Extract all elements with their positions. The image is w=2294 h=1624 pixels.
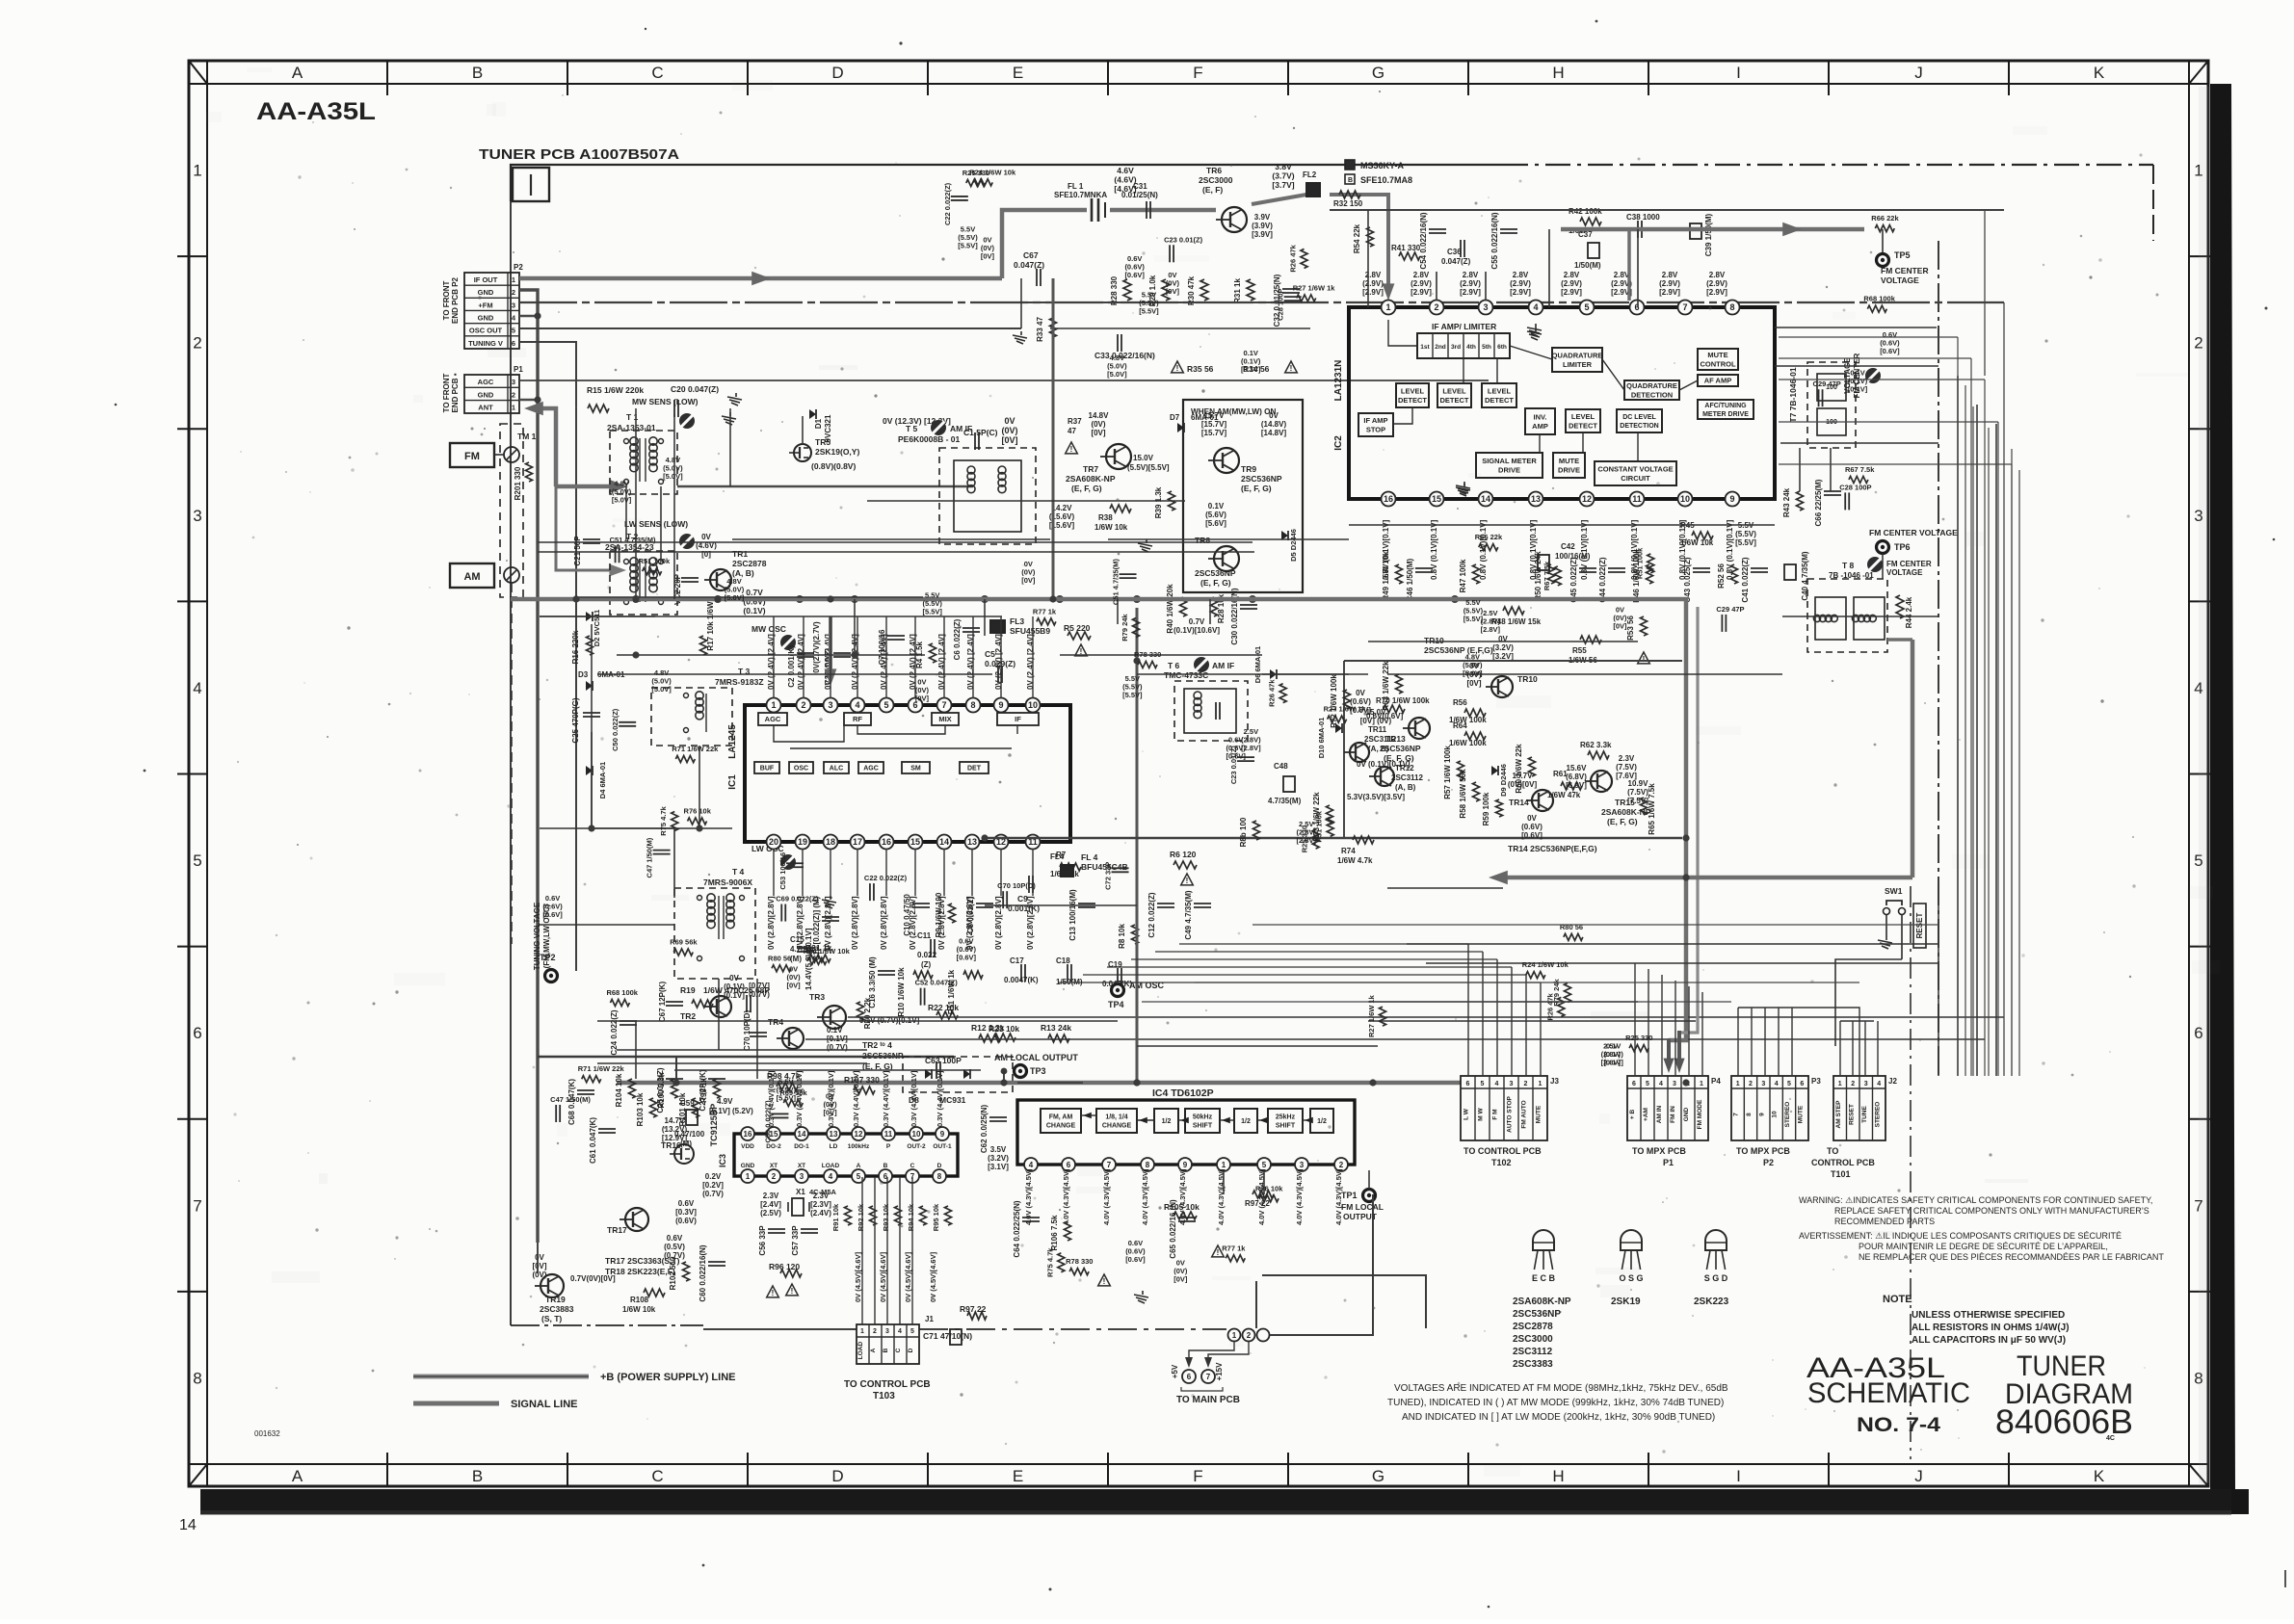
resistor R26 [1268, 679, 1287, 707]
svg-text:A: A [292, 1467, 303, 1485]
capacitor C63 100P [925, 1056, 962, 1079]
svg-text:!: ! [1290, 364, 1293, 373]
wire IC1 top pin stub [943, 616, 945, 698]
svg-text:CONTROL: CONTROL [1700, 359, 1735, 368]
svg-text:R94 10k: R94 10k [907, 1203, 915, 1231]
svg-text:(5.5V)[5.5V]: (5.5V)[5.5V] [1127, 463, 1170, 472]
resistor R105 10k [1164, 1202, 1200, 1219]
svg-text:VOLTAGES ARE INDICATED AT FM M: VOLTAGES ARE INDICATED AT FM MODE (98MHz… [1394, 1383, 1728, 1394]
svg-text:LEVEL: LEVEL [1401, 386, 1425, 395]
resistor R5 220 [1064, 623, 1091, 640]
svg-text:0V (4.5V)[4.6V]: 0V (4.5V)[4.6V] [879, 1251, 887, 1302]
svg-text:[6.9V]: [6.9V] [1566, 781, 1587, 790]
svg-text:AND INDICATED IN [ ] AT LW MO: AND INDICATED IN [ ] AT LW MODE (200kHz,… [1402, 1412, 1715, 1423]
svg-text:(7.5V): (7.5V) [1627, 788, 1648, 797]
svg-text:0.0047(K): 0.0047(K) [1004, 976, 1039, 984]
voltage stack IC1 bottom pin [994, 896, 1003, 950]
resistor R55 56 [1569, 636, 1601, 665]
capacitor C9 0.001(K) [1008, 876, 1040, 913]
capacitor C50 [763, 1100, 788, 1143]
svg-text:[3.9V]: [3.9V] [1252, 230, 1273, 239]
resistor R62 3.3k [1580, 741, 1612, 759]
svg-text:C16 3.3/50 (M): C16 3.3/50 (M) [868, 956, 877, 1008]
wire riser to J3 [1482, 952, 1484, 1076]
transistor package 2SA608K-NP legend [1513, 1230, 1571, 1370]
diode D10 6MA-01 [1317, 718, 1342, 759]
wire band y573 [538, 551, 1254, 553]
svg-text:H: H [1552, 1467, 1564, 1485]
wire riser to J2 [1852, 1021, 1854, 1076]
IC1 block IF [997, 713, 1039, 725]
svg-text:4: 4 [1533, 302, 1538, 312]
svg-text:[5.5V]: [5.5V] [922, 608, 942, 616]
IC2 block AFC/TUNING METER DRIVE [1698, 400, 1753, 419]
component C41 below IC2 [1741, 557, 1768, 602]
wire [597, 673, 992, 675]
wire T1 to C1 [677, 485, 973, 487]
wire [1387, 887, 1503, 889]
svg-text:5: 5 [1262, 1161, 1267, 1169]
svg-text:DETECTION: DETECTION [1631, 390, 1673, 399]
capacitor C23 [1164, 235, 1203, 262]
svg-text:METER DRIVE: METER DRIVE [1702, 411, 1749, 418]
connector P1 front end [464, 365, 523, 413]
wire [1107, 966, 1512, 968]
legend +B power supply line [413, 1372, 735, 1383]
svg-text:D: D [908, 1348, 914, 1352]
resistor R56 100k [1449, 698, 1487, 724]
warning triangle IC3 [767, 1286, 779, 1297]
wire riser to J2 [1839, 1021, 1841, 1076]
svg-text:!: ! [772, 1289, 775, 1297]
wire IC1 top pin stub [830, 616, 831, 698]
resistor R22 10k [928, 1003, 959, 1019]
wire riser to J3 [1540, 982, 1542, 1076]
voltage stack IC1 bottom pin [937, 896, 946, 950]
wire [635, 1021, 637, 1079]
svg-text:2.8V: 2.8V [1662, 271, 1678, 279]
arrows into P4 [1663, 1031, 1684, 1073]
svg-text:R8 10k: R8 10k [1118, 924, 1126, 949]
svg-text:(14.8V): (14.8V) [1261, 420, 1287, 429]
resistor R71 [672, 745, 719, 763]
svg-text:C: C [651, 1467, 663, 1485]
svg-text:P1: P1 [514, 365, 523, 374]
IC2 block SIGNAL METER DRIVE [1476, 453, 1543, 478]
wire IC1 pin stub [802, 849, 804, 896]
svg-text:[0.6V]: [0.6V] [1125, 1255, 1146, 1264]
svg-text:10: 10 [1028, 700, 1038, 710]
svg-text:[2.3V]: [2.3V] [810, 1200, 831, 1209]
svg-text:(7.5V): (7.5V) [1616, 763, 1637, 772]
svg-text:0.047(Z): 0.047(Z) [1441, 257, 1471, 266]
wire [617, 654, 925, 656]
resistor R95 [932, 1203, 952, 1231]
ground [1463, 482, 1465, 485]
svg-text:4: 4 [1877, 1081, 1881, 1087]
svg-text:TR5: TR5 [815, 437, 831, 447]
svg-text:P: P [886, 1143, 891, 1150]
capacitor C28 [1839, 483, 1871, 510]
connector J1 [857, 1315, 934, 1364]
svg-text:DRIVE: DRIVE [1498, 465, 1520, 474]
svg-text:R27 1/6W 1k: R27 1/6W 1k [1367, 994, 1376, 1037]
svg-text:R76 10k: R76 10k [684, 806, 712, 815]
svg-text:[0.6V]: [0.6V] [1521, 831, 1543, 840]
svg-text:SFU455B9: SFU455B9 [1010, 626, 1050, 636]
resistor R69 [779, 1088, 807, 1107]
voltage stack J1 line [879, 1251, 887, 1302]
svg-text:C22 0.022(Z): C22 0.022(Z) [943, 182, 952, 225]
svg-text:11: 11 [884, 1130, 893, 1139]
svg-text:C15: C15 [790, 935, 804, 944]
svg-text:T 6: T 6 [1168, 661, 1180, 670]
wire [802, 416, 804, 445]
resistor R74 4.7k [1337, 836, 1374, 865]
svg-text:5: 5 [1584, 302, 1589, 312]
svg-text:R77 1k: R77 1k [1033, 607, 1057, 616]
capacitor C16 3.3/50 [868, 956, 895, 1008]
wire riser to P1 [1674, 981, 1676, 1076]
svg-text:C66 22/25(M): C66 22/25(M) [1814, 479, 1823, 526]
svg-text:R100 3.3k: R100 3.3k [657, 1072, 666, 1108]
svg-text:R93 10k: R93 10k [882, 1203, 890, 1231]
transistor TR4 [768, 1017, 804, 1049]
svg-text:INV.: INV. [1534, 412, 1547, 421]
svg-text:H: H [1552, 64, 1564, 82]
svg-text:50kHz: 50kHz [1193, 1114, 1213, 1121]
FM terminal box [450, 443, 494, 467]
svg-text:F: F [1193, 64, 1202, 82]
svg-text:AGC: AGC [863, 766, 879, 773]
svg-text:C6 0.022(Z): C6 0.022(Z) [953, 618, 962, 660]
svg-text:TR9: TR9 [1241, 464, 1256, 474]
voltage stack IC2 bottom [1382, 519, 1390, 580]
svg-text:END PCB ▪: END PCB ▪ [451, 373, 460, 412]
wire riser to J3 [1525, 975, 1527, 1076]
svg-text:2SA608K-NP: 2SA608K-NP [1513, 1297, 1571, 1307]
svg-text:C21 56P: C21 56P [573, 536, 582, 566]
svg-text:RF: RF [853, 715, 862, 723]
warning R35 R34 [1172, 361, 1298, 374]
svg-text:(A, B): (A, B) [1395, 783, 1416, 792]
dashed link box [500, 424, 523, 597]
svg-text:!: ! [1070, 445, 1073, 454]
svg-text:BUF: BUF [760, 766, 775, 773]
svg-text:14: 14 [939, 837, 949, 847]
capacitor C37 1/50(M) [1574, 230, 1601, 270]
wire [867, 1020, 1118, 1022]
svg-text:[0.3V]: [0.3V] [675, 1208, 697, 1217]
IC2 block MUTE CONTROL [1698, 349, 1738, 370]
svg-text:[5.5V]: [5.5V] [1122, 691, 1143, 699]
wire [1995, 424, 1997, 1076]
wire IC1 pin stub [943, 849, 945, 896]
svg-text:R71 1/6W 22k: R71 1/6W 22k [672, 745, 719, 753]
diode D9 D2446 [1491, 764, 1508, 797]
warning triangle near J1 [1098, 1274, 1111, 1286]
wire [985, 904, 1137, 906]
resistor R30 47k [1187, 275, 1208, 305]
svg-text:(E, F, G): (E, F, G) [1071, 484, 1102, 493]
resistor R16 220k [571, 630, 593, 664]
svg-text:1st: 1st [1420, 344, 1430, 351]
specks outside frame [899, 41, 902, 44]
svg-text:TR1: TR1 [732, 549, 748, 559]
svg-text:C23 0.01(Z): C23 0.01(Z) [1164, 235, 1203, 244]
svg-text:0V: 0V [1269, 411, 1279, 420]
capacitor C24 0.022(Z) [610, 1009, 637, 1055]
resistor R106 7.5k [1050, 1215, 1071, 1250]
svg-text:R52 56: R52 56 [1717, 563, 1726, 589]
svg-text:R106 7.5k: R106 7.5k [1050, 1215, 1059, 1250]
svg-text:0V: 0V [701, 533, 711, 541]
svg-text:D6 6MA-01: D6 6MA-01 [1253, 646, 1262, 683]
svg-text:[0V]: [0V] [786, 981, 801, 989]
svg-text:GND: GND [478, 288, 494, 297]
svg-text:20: 20 [769, 837, 778, 847]
svg-text:R66 22k: R66 22k [1871, 214, 1899, 223]
resistor R57 100k [1443, 746, 1464, 799]
svg-text:C70 10P(D): C70 10P(D) [743, 1010, 751, 1052]
transformer T8 7B-1046-01 [1807, 557, 1932, 652]
svg-text:2SC3112: 2SC3112 [1391, 773, 1423, 782]
transistor TR9 2SC536NP [1208, 448, 1282, 493]
resistor R10 [897, 967, 933, 1017]
wire [1882, 554, 1884, 579]
component R50 below IC2 [1534, 551, 1555, 601]
resistor R29 1.0k [1148, 275, 1170, 306]
svg-text:5: 5 [857, 1172, 861, 1181]
TO MAIN PCB pins [1171, 1342, 1249, 1405]
svg-text:TMC-4733C: TMC-4733C [1164, 670, 1208, 680]
main bus junctions [632, 595, 640, 603]
label TR11 2SC3112 [1364, 725, 1396, 753]
svg-text:C17: C17 [1010, 956, 1024, 965]
svg-text:C55 0.022/16(N): C55 0.022/16(N) [1490, 212, 1499, 269]
svg-text:!: ! [1103, 1277, 1106, 1286]
svg-text:P2: P2 [514, 263, 523, 272]
svg-text:TO CONTROL PCB: TO CONTROL PCB [844, 1379, 931, 1390]
svg-text:[5.0V]: [5.0V] [651, 685, 672, 694]
resistor R24 [969, 168, 1016, 186]
resistor R53 56 [1626, 616, 1649, 664]
voltage stack IC1 pin [824, 634, 832, 690]
svg-text:DO-1: DO-1 [794, 1143, 809, 1150]
svg-text:(3.2V): (3.2V) [988, 1154, 1009, 1163]
component R46 below IC2 [1632, 549, 1653, 603]
svg-text:0V: 0V [729, 974, 739, 982]
legend MS36KY-A [1345, 160, 1405, 170]
resistor R6 120 [1170, 850, 1197, 869]
svg-text:S G D: S G D [1704, 1273, 1728, 1283]
wire J1 dashdot [703, 1328, 857, 1330]
transistor TR17 [607, 1208, 648, 1235]
voltage stack IC4 pin [1062, 1168, 1070, 1225]
svg-text:R66 22k: R66 22k [1475, 533, 1503, 541]
svg-text:C53 100/16: C53 100/16 [778, 852, 787, 890]
resistor R65 7.5k [1641, 783, 1657, 835]
resistor R59 100k [1482, 792, 1503, 825]
svg-text:8: 8 [1146, 1161, 1150, 1169]
svg-text:DC LEVEL: DC LEVEL [1622, 414, 1656, 421]
capacitor C25b 0.022(Z) [656, 1067, 683, 1113]
svg-text:IF AMP: IF AMP [1363, 416, 1387, 425]
svg-text:STEREO: STEREO [1874, 1102, 1881, 1128]
svg-text:C20 0.047(Z): C20 0.047(Z) [671, 384, 719, 394]
warning triangle R6 [1181, 874, 1194, 885]
wire top bus lines [1021, 301, 1310, 303]
svg-text:[2.9V]: [2.9V] [1659, 288, 1680, 297]
svg-text:C67: C67 [1023, 250, 1039, 260]
svg-text:FM, AM: FM, AM [1049, 1114, 1073, 1121]
svg-text:C29 47P: C29 47P [1716, 605, 1744, 614]
wire IC1 top pin stub [803, 616, 804, 698]
svg-text:15: 15 [910, 837, 920, 847]
svg-text:!: ! [1176, 364, 1179, 373]
resistor R44 2.4k [1896, 595, 1913, 628]
svg-text:3: 3 [193, 507, 201, 525]
svg-text:OSC: OSC [794, 766, 808, 773]
wire [1262, 673, 1368, 675]
svg-text:C5: C5 [985, 649, 995, 659]
capacitor C64 0.022/25(N) [1013, 1200, 1040, 1257]
svg-text:+5V: +5V [1171, 1364, 1179, 1378]
svg-text:FL 1: FL 1 [1068, 182, 1084, 191]
medium vertical x1093 [1052, 278, 1055, 599]
svg-text:D7: D7 [1170, 413, 1180, 422]
transistor TR3 [809, 992, 846, 1029]
svg-text:C56 33P: C56 33P [758, 1225, 767, 1256]
svg-text:5: 5 [910, 1328, 914, 1335]
svg-text:QUADRATURE: QUADRATURE [1552, 351, 1603, 359]
IC1 block SM [902, 762, 930, 773]
svg-text:CONSTANT VOLTAGE: CONSTANT VOLTAGE [1597, 464, 1673, 473]
voltage stack IC4 pin [1141, 1168, 1149, 1225]
medium vertical x1180 [1136, 608, 1139, 1083]
svg-text:R55: R55 [1572, 646, 1587, 655]
component R47 below IC2 [1459, 559, 1480, 592]
resistor R12 3.3k [971, 1023, 1005, 1042]
svg-text:C: C [651, 64, 663, 82]
svg-text:14: 14 [179, 1517, 197, 1533]
svg-text:[5.0V]: [5.0V] [1107, 370, 1127, 379]
wire [660, 486, 662, 562]
svg-text:+AM: +AM [1643, 1108, 1649, 1121]
svg-text:10.9V: 10.9V [1628, 779, 1649, 788]
svg-text:[3.2V]: [3.2V] [1492, 652, 1514, 661]
ceramic filter FL3 SFU455B9 [990, 616, 1050, 636]
svg-text:2: 2 [1851, 1081, 1855, 1087]
wire [591, 686, 593, 828]
svg-text:[15.7V]: [15.7V] [1201, 420, 1227, 429]
resistor R15 1/6W 220k [587, 385, 644, 412]
wire [1223, 1170, 1225, 1194]
svg-text:FL3: FL3 [1010, 616, 1024, 626]
wire [1179, 943, 1468, 945]
transistor TR2 [680, 996, 731, 1021]
resistor R48 15k [1491, 607, 1542, 626]
wire cluster frame y686 [1344, 660, 1682, 662]
PCB corner box marker [513, 168, 549, 201]
wire [1387, 673, 1782, 675]
wire [1775, 365, 1938, 367]
svg-text:NE REMPLACER QUE DES PIÈCES RE: NE REMPLACER QUE DES PIÈCES RECOMMANDÉES… [1859, 1252, 2164, 1262]
svg-text:LEVEL: LEVEL [1442, 386, 1466, 395]
capacitor C5 0.029(Z) [985, 649, 1015, 683]
wire IC1 top pin stub [885, 616, 887, 698]
svg-text:VDD: VDD [741, 1143, 754, 1150]
svg-text:2: 2 [1247, 1331, 1252, 1340]
svg-text:0.8V (0.1V)[0.1V]: 0.8V (0.1V)[0.1V] [1430, 519, 1438, 580]
capacitor C28 [1277, 288, 1302, 320]
svg-text:R59 100k: R59 100k [1482, 792, 1490, 825]
diode D6 6MA-01 [1253, 646, 1277, 683]
svg-text:SHIFT: SHIFT [1276, 1123, 1296, 1130]
wire [1108, 538, 1349, 540]
svg-text:C13 100/16(M): C13 100/16(M) [1068, 889, 1077, 941]
svg-text:TR6: TR6 [1206, 166, 1222, 175]
svg-text:[5.0V]: [5.0V] [612, 495, 632, 504]
svg-text:0.6V: 0.6V [678, 1199, 695, 1208]
wire [732, 538, 1050, 540]
wire R23 [805, 1038, 1985, 1040]
svg-text:5: 5 [1481, 1081, 1485, 1087]
capacitor C17 0.0047(K) [1004, 956, 1039, 984]
capacitor C51 [610, 536, 656, 563]
svg-text:POUR MAINTENIR LE DEGRE DE SÉC: POUR MAINTENIR LE DEGRE DE SÉCURITÉ DE L… [1859, 1242, 2108, 1251]
svg-text:FM CENTER: FM CENTER [1886, 560, 1932, 568]
resistor R68 [606, 988, 638, 1007]
IC1 block OSC [789, 762, 813, 773]
svg-text:A: A [870, 1348, 877, 1352]
wire R22 [848, 1016, 2004, 1018]
svg-text:(2.9V): (2.9V) [1659, 279, 1680, 288]
svg-text:1/2: 1/2 [1241, 1118, 1251, 1125]
svg-text:AM STEP: AM STEP [1835, 1100, 1842, 1129]
diode D5 D2446 [1281, 529, 1298, 562]
capacitor C25 470P(G) [571, 697, 600, 743]
svg-text:2.3V: 2.3V [763, 1192, 779, 1200]
svg-text:25kHz: 25kHz [1276, 1114, 1296, 1121]
wire IC1 top pin stub [773, 616, 775, 698]
svg-text:[0.6V]: [0.6V] [1880, 347, 1900, 355]
svg-text:6: 6 [193, 1024, 201, 1042]
svg-text:2SK223: 2SK223 [1694, 1297, 1729, 1307]
wire riser to P1 [1648, 969, 1649, 1076]
svg-text:D5 D2446: D5 D2446 [1289, 529, 1298, 562]
svg-text:SM: SM [910, 766, 921, 773]
resistor R18 1k [805, 943, 832, 962]
capacitor C20 0.047(Z) [671, 384, 719, 417]
svg-text:(5.6V): (5.6V) [1205, 511, 1226, 519]
svg-text:4: 4 [1775, 1081, 1779, 1087]
svg-text:TM 1: TM 1 [517, 432, 537, 441]
svg-text:R28 330: R28 330 [1110, 275, 1119, 305]
capacitor C30 0.022/16(N) [1230, 588, 1257, 644]
svg-text:3rd: 3rd [1451, 344, 1461, 351]
svg-text:TO CONTROL PCB: TO CONTROL PCB [1463, 1146, 1542, 1156]
svg-text:(0.7V): (0.7V) [749, 990, 770, 999]
grid row labels 1-8 left and right [177, 162, 2220, 1388]
svg-text:C51 4.7/35(M): C51 4.7/35(M) [1112, 559, 1121, 605]
svg-text:11: 11 [1632, 494, 1642, 504]
capacitor C67 0.047(Z) [1014, 250, 1044, 286]
svg-text:C: C [895, 1348, 902, 1352]
svg-text:[5.1V] (5.2V): [5.1V] (5.2V) [709, 1107, 753, 1115]
capacitor C22 [864, 874, 908, 901]
svg-text:E C B: E C B [1532, 1273, 1556, 1283]
